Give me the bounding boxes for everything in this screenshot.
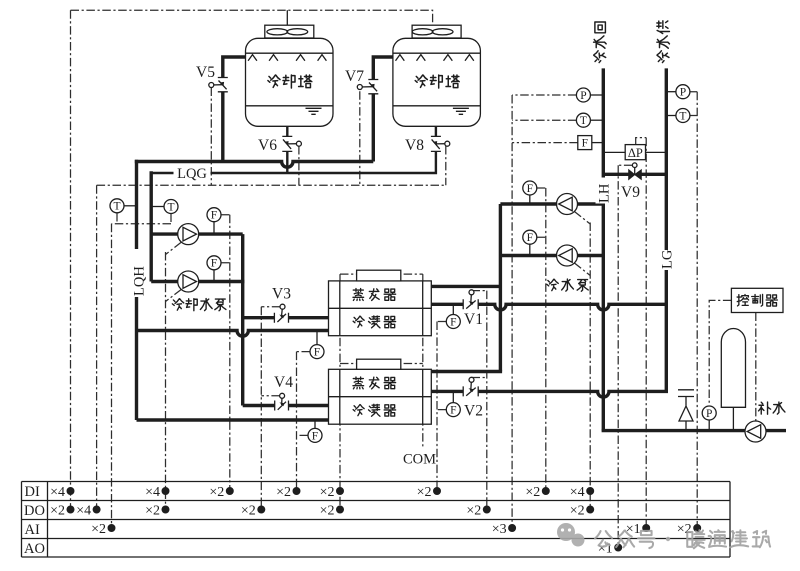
wire: chilled pump flow switch signals [537,188,546,237]
svg-text:×4: ×4 [76,503,91,518]
cooling pump 2 [178,271,199,292]
svg-text:×2: ×2 [145,503,160,518]
pipe evaporator 1 outlet V1 with hops [431,304,666,310]
svg-text:T: T [113,201,120,213]
svg-text:×2: ×2 [320,503,335,518]
svg-text:×2: ×2 [525,485,540,500]
sensor P make-up [702,406,716,431]
fan of tower 2 [412,25,461,38]
wire: trunk dP to AI [645,138,647,528]
IO connection dots AI row [91,522,701,537]
wire: trunk flow switches to DI [229,215,231,491]
valve V1 [463,290,483,328]
valve V5 [196,64,228,92]
wire: trunk T sensors to AI [111,224,113,528]
flow switch F evaporator 1 [446,304,460,328]
svg-text:AO: AO [24,541,45,557]
svg-text:×2: ×2 [91,522,106,537]
wire: trunk chilled flow to DI [545,188,547,491]
pipe supply riser LG [665,68,668,391]
wire: flow switch signals cooling pumps [221,215,230,263]
svg-text:P: P [680,87,686,99]
sensor T2 [151,200,178,214]
wire: trunk condenser flow to DI [296,352,298,491]
svg-text:LH: LH [597,183,613,203]
sensor T supply riser [666,109,690,123]
svg-text:F: F [312,430,318,442]
wire: cooling pump 1 control [166,242,182,254]
flow switch F cooling pump 1 [207,208,221,234]
svg-text:V4: V4 [274,374,293,391]
flow switch F chilled pump 2 [523,230,537,255]
label LG [659,250,675,270]
wire: condenser flow switch signals [297,352,311,436]
valve V2 [463,377,483,419]
svg-text:T: T [167,201,174,213]
pipe evaporator 1 feed [431,285,500,288]
chiller 1 [329,270,432,336]
svg-text:F: F [527,183,533,195]
pipe LQG horizontal [151,126,436,173]
svg-text:F: F [450,405,456,417]
svg-text:T: T [679,110,686,122]
dP transmitter [604,145,666,160]
IO connection dots DI row [50,485,594,500]
pipe return riser LH [602,68,605,430]
wire: trunk V1/V2 to DO [486,291,488,510]
chilled pump 2 [557,245,578,266]
wire: chiller COM line [422,274,424,447]
valve V3 [272,286,291,323]
svg-text:V3: V3 [272,286,291,303]
pipe make-up water line [602,429,786,432]
label LH [596,178,612,204]
wire: V2 signal [472,377,487,379]
flow switch F cooling pump 2 [207,256,221,282]
wire: top fan control line [71,10,433,25]
wire: V5 signal [210,88,212,186]
wire: trunk cooling pumps to DI/DO [165,252,167,510]
label riser supply [657,51,669,63]
svg-text:×2: ×2 [241,503,256,518]
sensor T1 [110,199,137,213]
wire: left trunk to DI/DO (fans) [70,10,72,509]
wire: dP transmitter signal loop [636,138,647,145]
wire: valve bus V5-V8 [97,184,446,186]
wire: controller to pressure sensor [709,300,731,405]
label LQH [128,249,145,297]
svg-text:DO: DO [24,503,45,519]
svg-text:AI: AI [25,522,40,538]
wire: V6 signal [298,146,300,185]
wire: return riser P/T/F signals [512,95,578,143]
svg-text:P: P [580,90,586,102]
controller box [731,288,783,312]
wire: trunk chillers to DI/DO [339,274,341,509]
svg-text:ΔP: ΔP [628,146,643,160]
wire: supply riser P/T signals [690,92,697,116]
wire: T sensors bus [112,213,172,224]
pipe cooling pump upper header [151,232,243,235]
watermark [557,523,770,548]
wire: fan 1 drop [286,10,288,25]
valve V4 [274,374,293,411]
pipe condenser feed leg [241,234,244,405]
label make-up water [759,402,771,414]
sensor P supply riser [666,85,690,99]
pipe tower1 drain with V6 [286,126,288,173]
wire: trunk V9 to AO [617,165,619,547]
wire: trunk V3/V4 to DO [260,307,262,510]
svg-text:×2: ×2 [276,485,291,500]
pipe LQG down-leg [149,171,152,281]
svg-text:V9: V9 [621,184,640,201]
IO connection dots DO row [50,503,594,518]
flow switch F condenser 2 [308,420,322,442]
svg-text:DI: DI [25,484,40,500]
wire: cooling pump 2 control [166,290,182,302]
cooling tower 1 [246,25,334,126]
expansion tank [721,329,745,431]
label chilled pumps [547,279,558,290]
wire: V1 signal [472,289,487,292]
wire: chiller 2 control line [340,363,423,365]
svg-text:V7: V7 [345,68,364,85]
svg-text:×2: ×2 [320,485,335,500]
valve V7 [345,68,378,94]
wire: chilled pump 1 control [574,212,590,225]
sensor P return riser [576,88,603,102]
wire: chilled pump 2 control [574,263,590,276]
valve V6 [258,136,301,154]
pipe tower1 inlet leg with V5 [223,57,246,162]
svg-text:F: F [582,138,588,150]
svg-text:COM: COM [403,452,436,468]
pipe condenser 2 outlet [137,418,329,421]
IO connection dots AO row [598,541,622,556]
svg-text:V2: V2 [464,403,483,420]
cooling tower 2 [393,25,481,126]
safety valve [678,390,694,431]
wire: chiller 1 control line [340,273,423,275]
svg-text:F: F [211,210,217,222]
wire: V8 signal [445,146,447,185]
pipe LQH horizontal with hop [135,162,373,168]
svg-text:V5: V5 [196,64,215,81]
flow switch F evaporator 2 [446,391,460,416]
pipe V9 bypass [603,173,666,176]
svg-text:×4: ×4 [570,485,585,500]
flow switch F chilled pump 1 [523,181,537,204]
valve V8 [405,136,450,154]
wire: trunk evap flow to DI [436,322,438,491]
sensor T return riser [576,113,603,127]
svg-text:LQG: LQG [177,166,207,182]
label cooling pumps [172,299,183,310]
svg-text:×2: ×2 [466,503,481,518]
svg-text:LG: LG [660,249,676,269]
pipe chilled pump upper header [500,202,603,205]
pipe evaporator 2 feed [431,370,502,373]
svg-text:×2: ×2 [50,503,65,518]
pipe condenser 1 outlet with hop [137,331,329,337]
svg-text:V1: V1 [464,311,483,328]
flow switch F condenser 1 [310,331,324,359]
pipe LQH vertical [135,160,138,420]
svg-text:×2: ×2 [677,522,692,537]
pipe chilled pump lower header [500,254,603,257]
svg-text:V8: V8 [405,137,424,154]
wire: trunk chilled pumps to DI/DO [589,223,591,510]
svg-text:V6: V6 [258,137,277,154]
pipe evaporator 2 outlet V2 with hop [431,391,668,397]
fan of tower 1 [265,25,314,38]
chiller 2 [329,359,432,424]
IO table frame [22,482,731,558]
label riser return [594,51,606,63]
wire: controller to make-up pump [755,313,757,421]
svg-text:×2: ×2 [209,485,224,500]
svg-text:F: F [211,258,217,270]
pipe V4 branch to condenser 2 [243,404,329,407]
svg-text:F: F [314,347,320,359]
pipe V3 branch to condenser 1 [243,316,329,319]
wire: trunk valves to DO [96,185,98,509]
wire: trunk riser sensors to AI [511,95,513,528]
svg-text:P: P [706,408,712,420]
svg-text:T: T [580,115,587,127]
svg-text:F: F [450,316,456,328]
svg-text:×2: ×2 [417,485,432,500]
svg-text:×4: ×4 [50,485,65,500]
flow meter F return riser [578,136,604,150]
wire: evaporator flow switch signals [437,322,446,410]
svg-text:LQH: LQH [132,266,148,296]
wire: V4 signal [261,395,280,397]
svg-text:×2: ×2 [570,503,585,518]
pipe cooling pump lower header [151,280,244,283]
wire: trunk supply sensors to AI [696,92,698,528]
pipe tower2 inlet leg with V7 [373,57,393,162]
wire: V3 signal [261,306,280,308]
svg-text:F: F [527,232,533,244]
pipe evaporator feed leg [499,204,502,372]
svg-text:×3: ×3 [492,522,507,537]
chilled pump 1 [557,194,578,215]
svg-text:×4: ×4 [145,485,160,500]
wire: V7 signal [359,91,361,185]
valve V9 [621,163,641,201]
wire: V9 signal [618,164,632,166]
make-up pump [745,421,766,442]
cooling pump 1 [178,224,199,245]
label LQG [174,165,211,181]
